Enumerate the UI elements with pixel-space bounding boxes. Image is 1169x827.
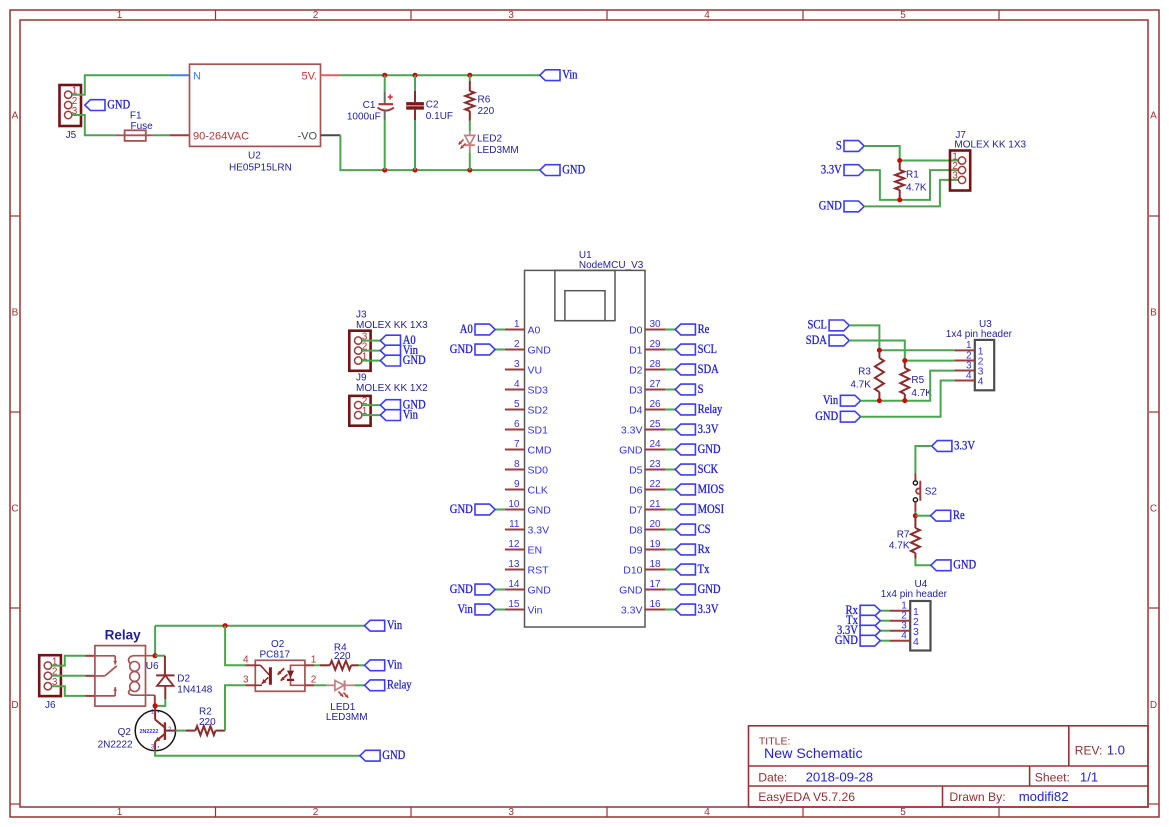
connector J5 (60, 85, 82, 126)
wire Vin rail (relay section) (155, 625, 364, 627)
svg-text:GND: GND (819, 199, 842, 213)
U1 pin 11 3.3V (505, 529, 525, 531)
wire Vin rail to O2 pin4 (225, 626, 245, 666)
svg-text:3.3V: 3.3V (621, 425, 643, 437)
svg-text:R5: R5 (911, 375, 924, 386)
U1 pin 14 GND (505, 589, 525, 591)
svg-text:GND: GND (698, 582, 721, 596)
svg-text:18: 18 (650, 559, 662, 570)
svg-text:4: 4 (978, 376, 984, 388)
svg-text:Vin: Vin (528, 605, 543, 617)
svg-text:16: 16 (650, 599, 662, 610)
svg-text:▪: ▪ (158, 745, 160, 751)
svg-text:▪: ▪ (158, 710, 160, 716)
U1 pin 22 D6 (645, 489, 665, 491)
title block (749, 726, 1149, 807)
wire J3 to GND flag (362, 360, 380, 362)
connector J9 MOLEX KK 1X2 (349, 396, 370, 426)
LED2 LED3MM (469, 121, 471, 131)
U1 pin 16 3.3V (645, 609, 665, 611)
svg-text:GND: GND (953, 558, 976, 572)
U3 pin 2 (955, 360, 975, 362)
svg-text:Re: Re (953, 508, 965, 522)
svg-text:4.7K: 4.7K (850, 380, 871, 391)
svg-text:R7: R7 (897, 530, 910, 541)
svg-text:F1: F1 (130, 111, 142, 122)
svg-text:Relay: Relay (387, 678, 412, 692)
svg-text:D3: D3 (629, 385, 643, 397)
header U4 1x4 pin header (910, 601, 930, 651)
svg-text:3: 3 (514, 359, 520, 370)
wire Q2 emitter to GND rail (155, 751, 360, 756)
svg-text:2: 2 (311, 674, 317, 685)
svg-text:22: 22 (650, 479, 662, 490)
resistor R2 220 (186, 730, 196, 732)
net flag Vin at U1 pin 15 (495, 609, 505, 611)
svg-text:15: 15 (508, 599, 520, 610)
svg-text:4: 4 (901, 631, 907, 642)
net flag GND at U1 pin 17 (665, 589, 675, 591)
U1 pin 18 D10 (645, 569, 665, 571)
net flag S (844, 141, 864, 152)
net flag SCL at U1 pin 29 (665, 349, 675, 351)
connector J6 (39, 655, 61, 696)
svg-text:C1: C1 (363, 100, 376, 111)
svg-text:4: 4 (514, 379, 520, 390)
svg-text:GND: GND (619, 445, 643, 457)
wire J6 pin3 to relay (52, 686, 85, 696)
svg-text:D5: D5 (629, 465, 643, 477)
U1 pin 29 D1 (645, 349, 665, 351)
wire R2 to O2 pin3 (225, 685, 246, 730)
net flag 3.3V (S2) (932, 441, 952, 452)
net flag GND at U1 pin 14 (495, 589, 505, 591)
svg-text:J6: J6 (45, 700, 56, 711)
svg-text:1: 1 (311, 654, 317, 665)
U1 pin 6 SD1 (505, 429, 525, 431)
U1 pin 9 CLK (505, 489, 525, 491)
svg-text:9: 9 (514, 479, 520, 490)
U1 pin 20 D8 (645, 529, 665, 531)
svg-text:3: 3 (243, 674, 249, 685)
svg-text:GND: GND (107, 97, 130, 111)
svg-text:GND: GND (528, 585, 552, 597)
svg-text:3.3V: 3.3V (698, 602, 719, 616)
U1 pin 1 A0 (505, 329, 525, 331)
svg-text:B: B (1150, 307, 1157, 318)
svg-text:SDA: SDA (806, 333, 827, 347)
svg-text:GND: GND (698, 442, 721, 456)
wire R4 to Vin flag (359, 664, 365, 666)
svg-text:C: C (1150, 504, 1157, 515)
net flag Vin (U3) (840, 395, 860, 406)
svg-text:3.3V: 3.3V (528, 525, 550, 537)
net flag Re at U1 pin 30 (665, 329, 675, 331)
svg-text:1/1: 1/1 (1080, 770, 1098, 785)
svg-text:GND: GND (835, 633, 858, 647)
net flag Vin (opto) (365, 660, 385, 671)
net flag GND (J7) (844, 201, 864, 212)
U1 pin 24 GND (645, 449, 665, 451)
svg-text:10: 10 (508, 499, 520, 510)
svg-text:29: 29 (650, 339, 662, 350)
U1 pin 4 SD3 (505, 389, 525, 391)
net flag S at U1 pin 27 (665, 389, 675, 391)
svg-text:S2: S2 (925, 487, 938, 498)
optocoupler O2 PC817 (255, 660, 305, 691)
microcontroller U1 NodeMCU_V3 (525, 270, 646, 627)
svg-text:LED3MM: LED3MM (326, 712, 368, 723)
svg-text:Rx: Rx (698, 542, 710, 556)
svg-text:GND: GND (528, 345, 552, 357)
svg-text:13: 13 (508, 559, 520, 570)
U4 pin 3 (890, 630, 910, 632)
wire relay coil bottom to Q2 collector (154, 695, 156, 706)
net flag Tx at U1 pin 18 (665, 569, 675, 571)
svg-text:D1: D1 (629, 345, 643, 357)
svg-text:MOSI: MOSI (698, 502, 725, 516)
wire GND rail from -VO (340, 135, 539, 170)
svg-text:D10: D10 (623, 565, 642, 577)
net flag 3.3V at U1 pin 25 (665, 429, 675, 431)
net flag Vin (J3) (380, 345, 400, 356)
svg-text:4: 4 (704, 807, 710, 818)
svg-text:Vin: Vin (387, 618, 402, 632)
svg-text:EN: EN (528, 545, 543, 557)
svg-text:90-264VAC: 90-264VAC (193, 130, 249, 142)
wire Q2 base to R2 (175, 730, 185, 732)
connector J3 MOLEX KK 1X3 (349, 331, 370, 371)
svg-text:R3: R3 (858, 367, 871, 378)
U1 pin 13 RST (505, 569, 525, 571)
svg-text:19: 19 (650, 539, 662, 550)
wire 3.3V to R1 bottom / J7 pin2 (864, 170, 958, 200)
svg-text:2: 2 (313, 807, 319, 818)
svg-text:EasyEDA V5.7.26: EasyEDA V5.7.26 (758, 790, 855, 804)
U1 pin 17 GND (645, 589, 665, 591)
svg-text:11: 11 (509, 519, 520, 530)
wire S to R1 top / J7 pin1 (864, 146, 900, 161)
U1 pin 27 D3 (645, 389, 665, 391)
U3 pin 1 (955, 349, 975, 351)
svg-text:1: 1 (117, 10, 123, 21)
svg-text:26: 26 (650, 399, 662, 410)
svg-text:Date:: Date: (758, 771, 787, 785)
svg-text:Relay: Relay (105, 627, 142, 642)
net flag Vin (J9) (380, 410, 400, 421)
U1 pin 3 VU (505, 369, 525, 371)
wire GND to J7 pin3 (864, 180, 958, 207)
svg-text:27: 27 (650, 379, 662, 390)
resistor R6 220 (469, 75, 471, 81)
svg-text:25: 25 (650, 419, 662, 430)
svg-text:Vin: Vin (403, 407, 418, 421)
svg-text:A: A (1150, 111, 1157, 122)
svg-text:A: A (12, 111, 19, 122)
svg-text:2N2222: 2N2222 (98, 739, 133, 750)
svg-text:D2: D2 (629, 365, 643, 377)
svg-text:CMD: CMD (528, 445, 552, 457)
svg-text:30: 30 (650, 319, 662, 330)
svg-text:VU: VU (528, 365, 543, 377)
svg-text:NodeMCU_V3: NodeMCU_V3 (579, 260, 644, 271)
wire +5V rail (340, 74, 540, 76)
svg-text:SCL: SCL (808, 318, 827, 332)
U1 pin 21 D7 (645, 509, 665, 511)
pin 5V stub (321, 74, 340, 76)
svg-text:3.3V: 3.3V (821, 162, 842, 176)
svg-text:GND: GND (450, 502, 473, 516)
net flag Tx (U4) (880, 620, 890, 622)
svg-text:2: 2 (514, 339, 520, 350)
svg-text:1: 1 (117, 807, 123, 818)
wire J9 to Vin flag (362, 414, 380, 416)
svg-text:20: 20 (650, 519, 662, 530)
U4 pin 1 (890, 610, 910, 612)
svg-text:O2: O2 (271, 639, 285, 650)
net flag Re (S2) (915, 515, 930, 517)
wire fuse to U2 90-264VAC pin (154, 134, 170, 136)
svg-text:J5: J5 (66, 130, 77, 141)
U1 pin 12 EN (505, 549, 525, 551)
svg-text:N: N (193, 71, 201, 83)
net flag Rx at U1 pin 19 (665, 549, 675, 551)
wire SCL to U3 pin1 (849, 325, 879, 350)
svg-text:Relay: Relay (698, 402, 723, 416)
svg-text:4: 4 (243, 654, 249, 665)
svg-text:MOLEX KK 1X3: MOLEX KK 1X3 (954, 139, 1026, 150)
svg-text:SD0: SD0 (528, 465, 549, 477)
svg-text:S: S (836, 138, 842, 152)
svg-text:17: 17 (650, 579, 662, 590)
connector J7 MOLEX KK 1X3 (950, 151, 970, 191)
svg-text:1.0: 1.0 (1107, 743, 1125, 758)
svg-text:Q2: Q2 (118, 727, 132, 738)
svg-text:SD3: SD3 (528, 385, 549, 397)
wire 3.3V to S2 (915, 446, 931, 474)
svg-text:5: 5 (514, 399, 520, 410)
svg-text:SCK: SCK (698, 462, 719, 476)
wire R7 to GND flag (915, 559, 930, 566)
svg-text:5: 5 (900, 807, 906, 818)
resistor R1 4.7K (899, 161, 901, 171)
svg-text:4.7K: 4.7K (906, 182, 927, 193)
svg-text:MOLEX KK 1X3: MOLEX KK 1X3 (356, 320, 428, 331)
svg-text:4.7K: 4.7K (911, 388, 932, 399)
svg-text:SD2: SD2 (528, 405, 549, 417)
net flag 3.3V (844, 165, 864, 176)
svg-text:GND: GND (562, 162, 585, 176)
net flag SDA (829, 335, 849, 346)
U1 pin 28 D2 (645, 369, 665, 371)
net flag Vin (relay rail) (365, 620, 385, 631)
svg-text:23: 23 (650, 459, 662, 470)
wire J5 pin1 to U2 N (72, 75, 170, 95)
switch S2 (914, 474, 916, 481)
svg-text:REV:: REV: (1075, 744, 1103, 758)
power module U2 HE05P15LRN (190, 64, 321, 146)
U1 pin 5 SD2 (505, 409, 525, 411)
transistor Q2 2N2222 (135, 710, 175, 750)
svg-text:GND: GND (528, 505, 552, 517)
svg-text:21: 21 (650, 499, 662, 510)
svg-text:4: 4 (913, 636, 919, 648)
net flag GND (U4) (880, 640, 890, 642)
U1 pin 23 D5 (645, 469, 665, 471)
wire J9 to GND flag (362, 404, 380, 406)
svg-text:MOLEX KK 1X2: MOLEX KK 1X2 (356, 383, 428, 394)
LED1 LED3MM (314, 684, 326, 686)
svg-text:3: 3 (952, 171, 958, 182)
svg-text:R1: R1 (906, 169, 919, 180)
net flag GND at J5 pin 2 (85, 100, 105, 111)
net flag GND (U3) (840, 411, 860, 422)
svg-text:24: 24 (650, 439, 662, 450)
wire S2 to junction (914, 512, 916, 516)
svg-text:14: 14 (508, 579, 520, 590)
svg-text:J3: J3 (356, 310, 367, 321)
svg-text:1: 1 (514, 319, 520, 330)
svg-text:Vin: Vin (387, 658, 402, 672)
svg-text:220: 220 (199, 717, 216, 728)
net flag GND (J3) (380, 355, 400, 366)
diode D2 1N4148 (155, 655, 165, 657)
svg-text:Fuse: Fuse (131, 121, 154, 132)
U1 pin 15 Vin (505, 609, 525, 611)
U1 pin 7 CMD (505, 449, 525, 451)
svg-text:D2: D2 (177, 673, 190, 684)
junction dots on 5V rail (382, 73, 387, 78)
U4 pin 2 (890, 620, 910, 622)
svg-text:3: 3 (508, 10, 514, 21)
svg-text:28: 28 (650, 359, 662, 370)
svg-text:C2: C2 (426, 100, 439, 111)
svg-text:S: S (698, 382, 704, 396)
svg-text:5V.: 5V. (301, 71, 317, 83)
svg-text:RST: RST (528, 565, 550, 577)
svg-text:1x4 pin header: 1x4 pin header (881, 589, 948, 600)
svg-text:Vin: Vin (562, 68, 577, 82)
net flag SDA at U1 pin 28 (665, 369, 675, 371)
svg-text:3.3V: 3.3V (621, 605, 643, 617)
svg-text:Drawn By:: Drawn By: (949, 790, 1005, 804)
svg-text:SCL: SCL (698, 342, 717, 356)
svg-text:Vin: Vin (823, 393, 838, 407)
svg-text:2: 2 (313, 10, 319, 21)
svg-text:5: 5 (900, 10, 906, 21)
svg-text:2N2222: 2N2222 (140, 729, 159, 735)
svg-text:B: B (12, 307, 19, 318)
svg-text:Sheet:: Sheet: (1035, 771, 1070, 785)
svg-text:-VO: -VO (297, 130, 317, 142)
net flag GND (R7) (931, 560, 951, 571)
net flag Relay (365, 680, 385, 691)
svg-text:GND: GND (450, 342, 473, 356)
svg-text:Re: Re (698, 322, 710, 336)
svg-text:CLK: CLK (528, 485, 548, 497)
svg-text:GND: GND (403, 353, 426, 367)
svg-text:GND: GND (619, 585, 643, 597)
svg-text:C: C (11, 504, 18, 515)
svg-text:U2: U2 (248, 151, 261, 162)
net flag GND (J9) (380, 400, 400, 411)
U1 pin 26 D4 (645, 409, 665, 411)
svg-text:HE05P15LRN: HE05P15LRN (229, 163, 292, 174)
net flag GND (relay section) (360, 750, 380, 761)
wire SDA to U3 pin2 (849, 341, 905, 361)
svg-text:220: 220 (478, 106, 495, 117)
wire J6 pin1 to relay (52, 656, 85, 666)
svg-text:R6: R6 (478, 95, 491, 106)
wire LED1 to Relay flag (355, 684, 365, 686)
U3 pin 3 (955, 370, 975, 372)
svg-text:D: D (11, 700, 18, 711)
U1 pin 8 SD0 (505, 469, 525, 471)
net flag 3.3V at U1 pin 16 (665, 609, 675, 611)
svg-text:3: 3 (508, 807, 514, 818)
svg-text:Tx: Tx (698, 562, 710, 576)
svg-text:6: 6 (514, 419, 520, 430)
capacitor C1 1000uF (384, 75, 386, 91)
svg-text:D7: D7 (629, 505, 643, 517)
net flag GND at U1 pin 24 (665, 449, 675, 451)
U1 pin 30 D0 (645, 329, 665, 331)
wire GND to U3 pin4 (861, 381, 955, 417)
net flag CS at U1 pin 20 (665, 529, 675, 531)
wire Vin to R3/R5 bottoms and U3 pin3 (861, 371, 955, 401)
U1 pin 19 D9 (645, 549, 665, 551)
header U3 1x4 pin header (975, 340, 994, 390)
svg-text:MIOS: MIOS (698, 482, 725, 496)
svg-text:D8: D8 (629, 525, 643, 537)
svg-text:LED2: LED2 (477, 133, 502, 144)
svg-text:D4: D4 (629, 405, 643, 417)
net flag Vin (5V rail) (540, 70, 560, 81)
svg-text:GND: GND (450, 582, 473, 596)
svg-text:D0: D0 (629, 325, 643, 337)
resistor R3 4.7K (878, 350, 880, 358)
net flag GND at U1 pin 10 (495, 509, 505, 511)
net flag Relay at U1 pin 26 (665, 409, 675, 411)
svg-text:A0: A0 (528, 325, 541, 337)
svg-text:4: 4 (704, 10, 710, 21)
net flag A0 (J3) (380, 335, 400, 346)
net flag SCL (829, 320, 849, 331)
pin N stub (blue) (170, 74, 190, 76)
net flag GND (power rail) (540, 165, 560, 176)
svg-text:7: 7 (514, 439, 520, 450)
svg-text:GND: GND (382, 748, 405, 762)
svg-text:4.7K: 4.7K (889, 541, 910, 552)
resistor R5 4.7K (904, 361, 906, 368)
svg-text:4: 4 (966, 370, 972, 381)
svg-text:1x4 pin header: 1x4 pin header (946, 329, 1013, 340)
svg-text:220: 220 (334, 651, 351, 662)
capacitor C2 0.1UF (414, 75, 416, 91)
svg-text:1000uF: 1000uF (347, 112, 381, 123)
svg-text:GND: GND (815, 409, 838, 423)
wire J3 to A0 flag (362, 340, 380, 342)
resistor R4 220 (314, 664, 320, 666)
net flag GND at U1 pin 2 (495, 349, 505, 351)
U4 pin 4 (890, 640, 910, 642)
U3 pin 4 (955, 380, 975, 382)
svg-text:A0: A0 (460, 322, 473, 336)
svg-text:2018-09-28: 2018-09-28 (806, 770, 873, 785)
svg-text:3.3V: 3.3V (698, 422, 719, 436)
svg-text:U6: U6 (146, 661, 159, 672)
pin -VO stub (321, 134, 341, 136)
